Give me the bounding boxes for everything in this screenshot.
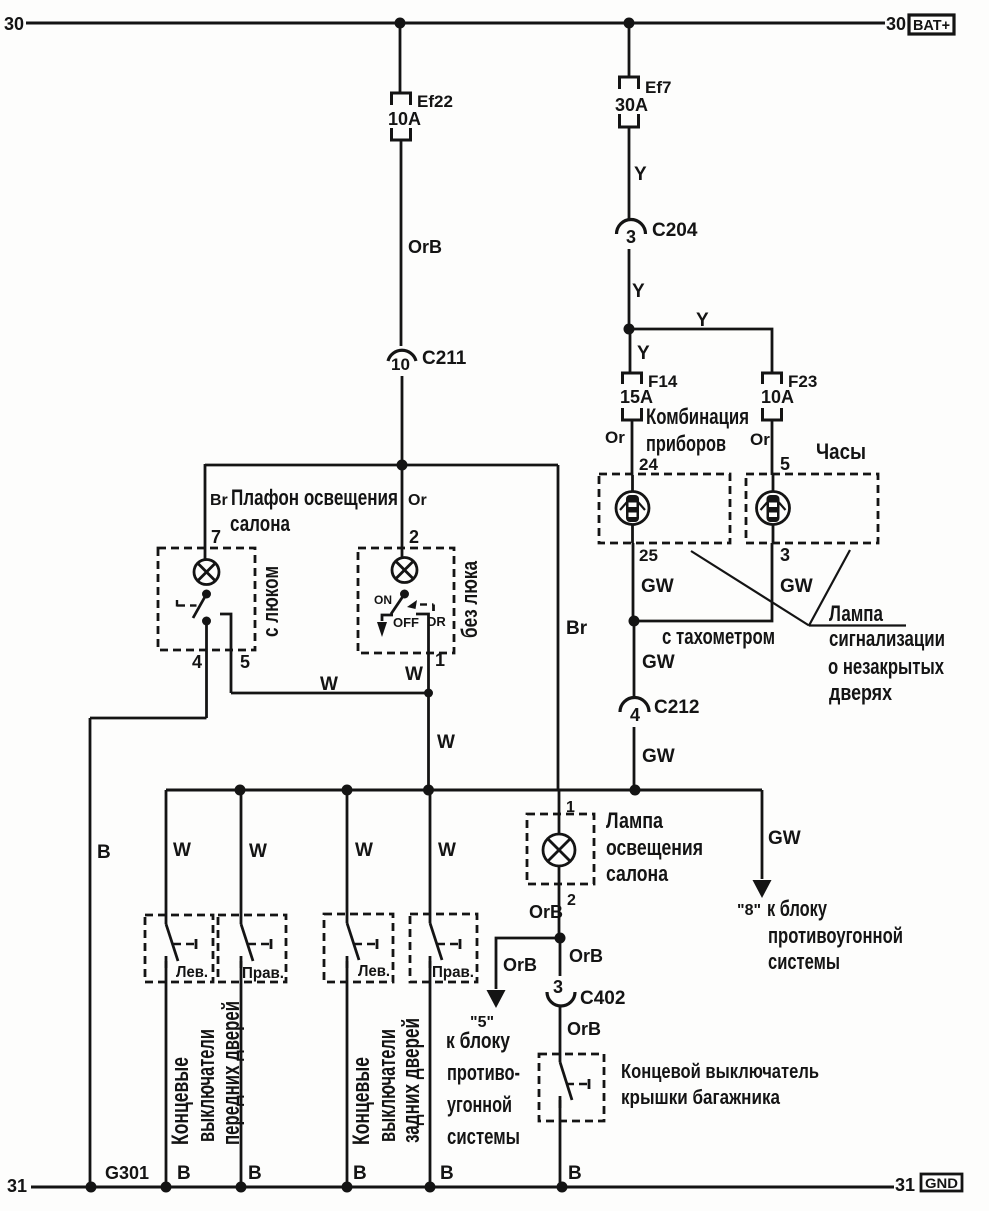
svg-text:30: 30 bbox=[4, 14, 24, 34]
svg-text:B: B bbox=[440, 1163, 454, 1184]
svg-text:противо-: противо- bbox=[447, 1060, 520, 1085]
wire: pin 1 down to W node bbox=[416, 614, 429, 693]
label: Концевой выключатель крышки багажника bbox=[621, 1061, 819, 1109]
node: Y split junction bbox=[624, 324, 635, 335]
wire: C212 to W bus, GW bbox=[633, 727, 636, 790]
svg-text:приборов: приборов bbox=[646, 431, 726, 456]
wire: GW junction to C212 bbox=[633, 621, 636, 697]
svg-text:GW: GW bbox=[641, 576, 674, 597]
wire: Y junction to F14 bbox=[629, 329, 632, 372]
connector C211 pin 10 bbox=[388, 350, 416, 361]
svg-text:30: 30 bbox=[886, 14, 906, 34]
wire: bus 30 to fuse Ef22 bbox=[399, 23, 402, 92]
wire: F14 to cluster pin 24, Or bbox=[631, 420, 634, 475]
wire: W drop to rear-left door switch bbox=[346, 790, 349, 923]
svg-text:OrB: OrB bbox=[529, 902, 563, 922]
clock dashed box bbox=[746, 474, 878, 543]
wire: F23 to clock pin 5, Or bbox=[771, 420, 774, 475]
svg-text:угонной: угонной bbox=[447, 1092, 512, 1117]
node: ground / rear-left switch bbox=[342, 1182, 353, 1193]
svg-text:GND: GND bbox=[925, 1175, 958, 1191]
svg-text:дверях: дверях bbox=[829, 680, 893, 705]
svg-text:W: W bbox=[438, 840, 456, 861]
svg-text:B: B bbox=[568, 1163, 582, 1184]
wire: W drop to front-right door switch bbox=[240, 790, 243, 924]
door-ajar warning lamp (clock) bbox=[757, 475, 790, 543]
svg-text:Прав.: Прав. bbox=[432, 964, 474, 981]
svg-text:с тахометром: с тахометром bbox=[662, 624, 775, 649]
door-ajar warning lamp (cluster) bbox=[616, 475, 649, 543]
wire: front-left switch to ground bus, B bbox=[165, 961, 168, 1187]
svg-text:Лев.: Лев. bbox=[176, 964, 208, 981]
node: GW junction bbox=[629, 616, 640, 627]
svg-text:системы: системы bbox=[447, 1124, 520, 1149]
svg-text:Y: Y bbox=[637, 343, 650, 364]
wire: trunk switch to ground bus, B bbox=[559, 1100, 562, 1187]
node: ground / front-left switch bbox=[161, 1182, 172, 1193]
node: W bus / switch 2 bbox=[235, 785, 246, 796]
callout lines to warning-lamp note bbox=[691, 550, 906, 626]
svg-text:25: 25 bbox=[639, 546, 658, 565]
svg-text:Часы: Часы bbox=[816, 439, 866, 464]
svg-text:GW: GW bbox=[780, 576, 813, 597]
node: ground / trunk switch bbox=[557, 1182, 568, 1193]
label: "8" к блоку противоугонной системы bbox=[737, 896, 903, 974]
svg-text:Лампа: Лампа bbox=[829, 601, 884, 626]
svg-text:2: 2 bbox=[409, 527, 419, 547]
dome lamp unit (no sunroof) dashed box bbox=[358, 548, 454, 653]
front-right door switch (Прав.) bbox=[218, 915, 286, 982]
svg-text:3: 3 bbox=[626, 227, 636, 247]
svg-text:GW: GW bbox=[768, 828, 801, 849]
svg-text:4: 4 bbox=[630, 705, 640, 725]
fuse Ef22 10A bbox=[392, 93, 411, 140]
svg-text:Ef7: Ef7 bbox=[645, 78, 671, 97]
fuse F23 10A bbox=[763, 373, 782, 420]
wire: cluster pin 25 down, GW bbox=[632, 543, 635, 621]
label: Концевые выключатели передних дверей (vertical) bbox=[167, 1001, 245, 1145]
svg-text:к блоку: к блоку bbox=[446, 1028, 511, 1053]
svg-text:Концевые: Концевые bbox=[348, 1057, 375, 1145]
svg-text:Or: Or bbox=[750, 430, 770, 449]
fuse F14 15A bbox=[623, 373, 642, 420]
node: W junction bbox=[424, 689, 433, 698]
svg-text:1: 1 bbox=[435, 650, 445, 670]
svg-text:задних дверей: задних дверей bbox=[398, 1018, 425, 1143]
wire: plafond horizontal feed bbox=[205, 464, 558, 467]
svg-text:ON: ON bbox=[374, 593, 392, 607]
wire: pin 4 down bbox=[205, 621, 208, 718]
wire: Y horizontal to F23 branch bbox=[629, 329, 772, 372]
node: ground / front-right switch bbox=[236, 1182, 247, 1193]
wire: Br/interior lamp pin 1 bbox=[558, 790, 561, 834]
wire: W net horizontal pin5 to pin1 bbox=[231, 692, 429, 695]
svg-text:Плафон освещения: Плафон освещения bbox=[231, 485, 398, 510]
svg-text:2: 2 bbox=[567, 892, 576, 909]
svg-text:W: W bbox=[355, 840, 373, 861]
connector C212 pin 4 bbox=[620, 698, 649, 713]
wire: W drop to rear-right door switch bbox=[429, 790, 432, 923]
wire: OrB junction down to C402 bbox=[559, 938, 562, 976]
svg-text:Or: Or bbox=[408, 492, 427, 509]
arrow to anti-theft unit pin 8 bbox=[753, 880, 772, 898]
connector C204 pin 3 bbox=[617, 220, 646, 234]
node: OrB junction bbox=[555, 933, 566, 944]
lamp (dome light, sunroof version) bbox=[194, 560, 219, 585]
svg-text:W: W bbox=[405, 664, 423, 685]
svg-text:B: B bbox=[248, 1163, 262, 1184]
node: bus 30 / Ef22 junction bbox=[395, 18, 406, 29]
svg-text:5: 5 bbox=[240, 652, 250, 672]
svg-text:Концевой выключатель: Концевой выключатель bbox=[621, 1061, 819, 1083]
switch blade bbox=[391, 594, 405, 614]
svg-text:Комбинация: Комбинация bbox=[646, 404, 749, 429]
svg-text:OrB: OrB bbox=[569, 946, 603, 966]
trunk switch blade and contact bbox=[560, 1062, 589, 1108]
svg-text:7: 7 bbox=[211, 527, 221, 547]
node: lamp to switch bbox=[400, 590, 409, 599]
wire: C211 down to plafond node bbox=[401, 376, 404, 465]
svg-text:10A: 10A bbox=[761, 387, 794, 407]
svg-text:с люком: с люком bbox=[258, 566, 283, 637]
svg-text:GW: GW bbox=[642, 652, 675, 673]
svg-text:GW: GW bbox=[642, 746, 675, 767]
svg-text:OrB: OrB bbox=[408, 237, 442, 257]
svg-text:противоугонной: противоугонной bbox=[768, 923, 903, 948]
trunk lid switch dashed box bbox=[539, 1054, 604, 1121]
svg-text:без люка: без люка bbox=[457, 560, 482, 638]
DR contact arm with arrowhead bbox=[407, 600, 434, 611]
svg-text:W: W bbox=[249, 841, 267, 862]
label: Концевые выключатели задних дверей (vertical) bbox=[348, 1018, 425, 1145]
svg-text:Y: Y bbox=[632, 281, 645, 302]
wire: rear-left switch to ground bus, B bbox=[346, 961, 349, 1187]
svg-text:Br: Br bbox=[210, 492, 228, 509]
svg-text:W: W bbox=[437, 732, 455, 753]
svg-text:5: 5 bbox=[780, 454, 790, 474]
svg-text:Y: Y bbox=[634, 164, 647, 185]
lamp (dome light, no sunroof) bbox=[392, 558, 417, 583]
wire: pin 5 contact down bbox=[220, 614, 231, 693]
svg-text:салона: салона bbox=[230, 511, 291, 536]
net 31 ground bus bbox=[31, 1186, 894, 1189]
svg-text:Лампа: Лампа bbox=[606, 808, 664, 833]
svg-text:о незакрытых: о незакрытых bbox=[828, 654, 945, 679]
svg-text:Лев.: Лев. bbox=[358, 963, 390, 980]
instrument cluster dashed box bbox=[599, 474, 730, 543]
node: W bus / switch 3 bbox=[342, 785, 353, 796]
svg-text:C204: C204 bbox=[652, 220, 698, 241]
wire: bus 30 to fuse Ef7 bbox=[628, 23, 631, 76]
wire: feed to lamp with sunroof, pin 7 bbox=[204, 464, 207, 561]
node: plafond feed junction bbox=[397, 460, 408, 471]
svg-text:30A: 30A bbox=[615, 95, 648, 115]
rear-left door switch (Лев.) bbox=[324, 914, 393, 982]
svg-text:OrB: OrB bbox=[503, 955, 537, 975]
svg-text:3: 3 bbox=[780, 545, 790, 565]
wire: Ef7 to C204, Y bbox=[628, 127, 631, 219]
wire: clock pin 3 down, GW bbox=[634, 543, 772, 621]
node: switch output bbox=[202, 617, 211, 626]
switch blade (dome lamp switch) bbox=[193, 594, 207, 618]
svg-text:W: W bbox=[320, 674, 338, 695]
svg-text:Y: Y bbox=[696, 310, 709, 331]
fuse Ef7 30A bbox=[620, 77, 639, 127]
svg-text:освещения: освещения bbox=[606, 835, 703, 860]
OFF contact with down arrow bbox=[377, 615, 393, 637]
svg-text:системы: системы bbox=[768, 949, 840, 974]
wire: feed to lamp without sunroof, pin 2 bbox=[401, 465, 404, 559]
svg-text:выключатели: выключатели bbox=[193, 1029, 220, 1142]
label: "5" к блоку противо-угонной системы bbox=[446, 1014, 520, 1149]
svg-text:B: B bbox=[353, 1163, 367, 1184]
interior lamp dashed box bbox=[527, 814, 594, 884]
svg-text:C402: C402 bbox=[580, 988, 625, 1009]
svg-text:крышки багажника: крышки багажника bbox=[621, 1087, 781, 1109]
svg-text:OrB: OrB bbox=[567, 1019, 601, 1039]
net 30 battery bus bbox=[26, 22, 885, 25]
svg-text:10A: 10A bbox=[388, 109, 421, 129]
dome lamp unit (with sunroof) dashed box bbox=[158, 548, 255, 650]
wire: W down to door bus bbox=[427, 693, 430, 790]
wire: Br vertical (plafond feed to interior lamp) bbox=[557, 465, 560, 790]
wire: B net horizontal from pin 4 bbox=[90, 717, 207, 720]
svg-text:передних дверей: передних дверей bbox=[218, 1001, 245, 1145]
wire: rear-right switch to ground bus, B bbox=[429, 961, 432, 1187]
svg-text:Or: Or bbox=[605, 428, 625, 447]
wire: B net left vertical to ground bus bbox=[89, 718, 92, 1187]
wire: W drop to front-left door switch bbox=[165, 790, 168, 924]
wire: OrB branch to anti-theft bbox=[496, 938, 560, 989]
svg-text:G301: G301 bbox=[105, 1163, 149, 1183]
node: ground / rear-right switch bbox=[425, 1182, 436, 1193]
wire: lamp pin 2 to OrB junction bbox=[558, 866, 561, 938]
wire: C402 to trunk switch, OrB bbox=[559, 1007, 562, 1062]
lamp: Лампа освещения салона bbox=[543, 834, 575, 866]
svg-text:BAT+: BAT+ bbox=[913, 17, 950, 34]
svg-text:выключатели: выключатели bbox=[374, 1029, 401, 1142]
connector C402 pin 3 bbox=[547, 992, 575, 1006]
wire: door switch W bus bbox=[166, 789, 762, 792]
svg-text:4: 4 bbox=[192, 652, 202, 672]
rear-right door switch (Прав.) bbox=[410, 914, 477, 982]
wire: fuse Ef22 to connector C211, OrB bbox=[400, 140, 403, 346]
wire: GW branch to anti-theft unit bbox=[761, 790, 764, 879]
switch door contact arm bbox=[177, 600, 197, 607]
arrow to anti-theft unit pin 5 bbox=[487, 990, 506, 1008]
svg-text:к блоку: к блоку bbox=[767, 896, 828, 921]
svg-text:DR: DR bbox=[427, 614, 446, 629]
svg-text:10: 10 bbox=[391, 355, 410, 374]
svg-text:31: 31 bbox=[7, 1176, 27, 1196]
front-left door switch (Лев.) bbox=[145, 915, 213, 982]
svg-text:B: B bbox=[97, 842, 111, 863]
svg-text:Концевые: Концевые bbox=[167, 1057, 194, 1145]
svg-text:31: 31 bbox=[895, 1175, 915, 1195]
svg-text:W: W bbox=[173, 840, 191, 861]
svg-text:C212: C212 bbox=[654, 697, 699, 718]
svg-text:Прав.: Прав. bbox=[242, 965, 284, 982]
svg-text:OFF: OFF bbox=[393, 615, 419, 630]
wire: C204 to Y junction bbox=[628, 249, 631, 329]
svg-text:салона: салона bbox=[606, 861, 669, 886]
wire: front-right switch to ground bus, B bbox=[240, 961, 243, 1187]
svg-text:24: 24 bbox=[639, 455, 658, 474]
svg-text:3: 3 bbox=[553, 977, 563, 997]
svg-text:Ef22: Ef22 bbox=[417, 92, 453, 111]
svg-text:B: B bbox=[177, 1163, 191, 1184]
BAT+ terminal box bbox=[909, 15, 954, 34]
svg-text:C211: C211 bbox=[422, 348, 467, 369]
node: W bus / GW from C212 bbox=[630, 785, 641, 796]
node: W bus / pin1 wire bbox=[423, 785, 434, 796]
node: lamp to switch bbox=[202, 590, 211, 599]
svg-text:сигнализации: сигнализации bbox=[829, 626, 945, 651]
svg-text:Br: Br bbox=[566, 618, 588, 639]
node: bus 30 / Ef7 junction bbox=[624, 18, 635, 29]
label: Лампа сигнализации о незакрытых дверях bbox=[828, 601, 945, 705]
node: ground G301 bbox=[86, 1182, 97, 1193]
svg-text:"8": "8" bbox=[737, 902, 761, 919]
GND terminal box bbox=[921, 1174, 962, 1191]
